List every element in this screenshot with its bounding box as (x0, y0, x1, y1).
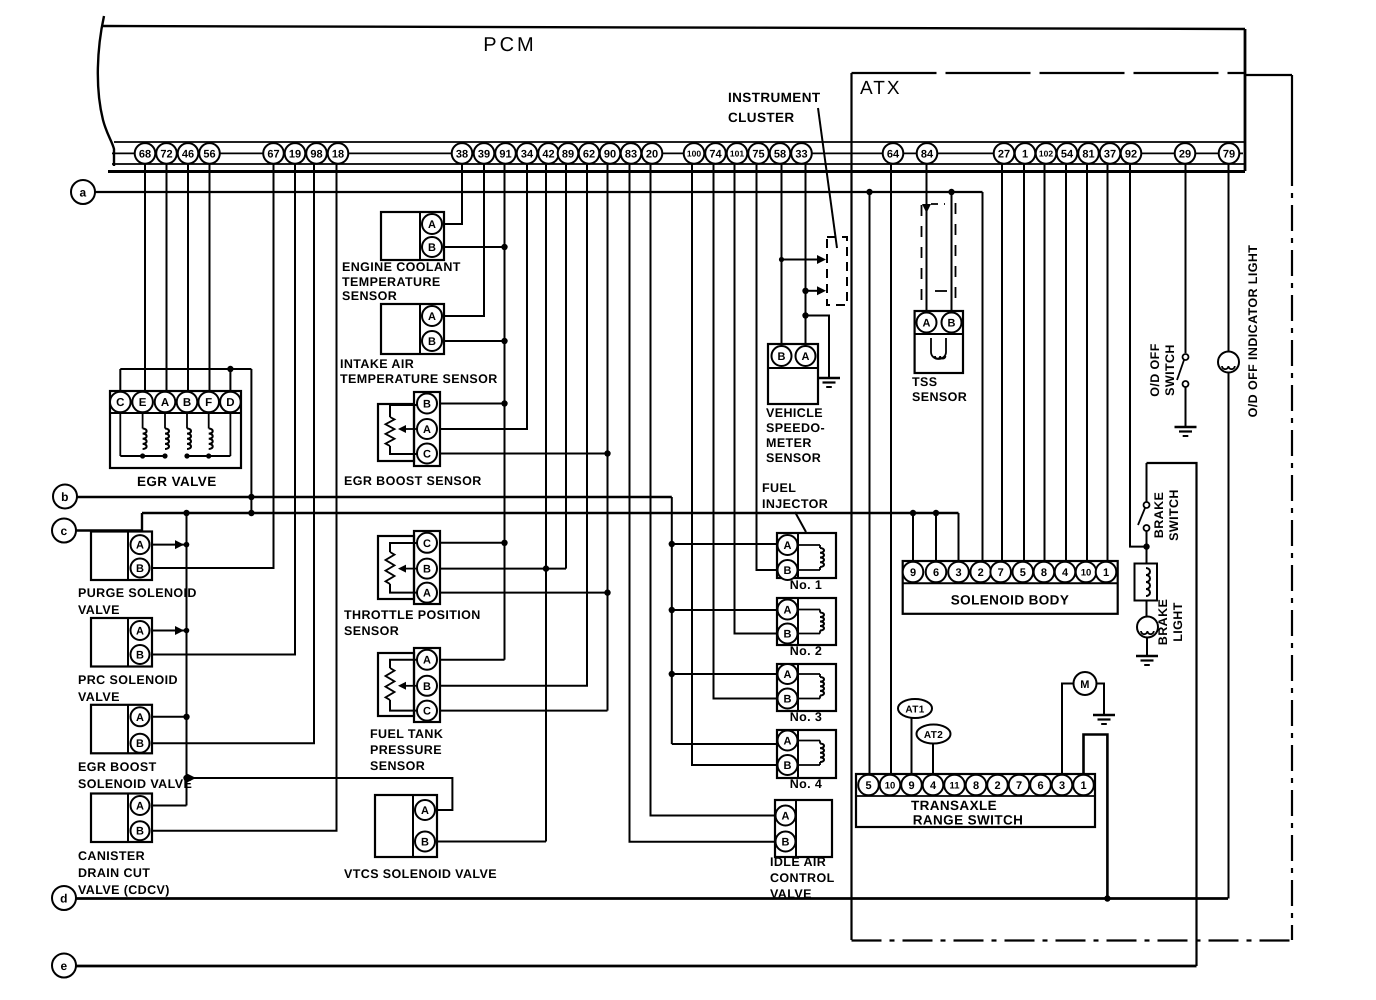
wire EGR C riser (119, 369, 121, 392)
svg-text:RANGE SWITCH: RANGE SWITCH (913, 813, 1024, 828)
svg-text:E: E (139, 397, 147, 409)
wire c-rail to solenoid body 6 (935, 513, 937, 562)
wire pin81 to solenoid body 10 (1086, 163, 1088, 562)
svg-text:B: B (784, 565, 792, 577)
svg-text:4: 4 (1062, 567, 1069, 579)
svg-text:81: 81 (1082, 148, 1094, 160)
svg-text:98: 98 (310, 148, 322, 160)
svg-text:CONTROL: CONTROL (770, 871, 835, 885)
svg-text:No. 4: No. 4 (790, 777, 823, 791)
wire pin37 to solenoid body 1 (1107, 163, 1109, 562)
wire TPS B branch (440, 568, 566, 570)
svg-text:6: 6 (1037, 780, 1043, 792)
svg-text:A: A (802, 351, 810, 363)
svg-text:AT1: AT1 (905, 705, 924, 716)
svg-text:TSS: TSS (912, 375, 938, 389)
wire TPS A branch (440, 592, 608, 594)
PCM connector strip (114, 141, 1245, 143)
svg-text:A: A (782, 810, 790, 822)
range switch pin 10 (880, 775, 901, 796)
svg-text:10: 10 (885, 780, 896, 791)
svg-text:B: B (784, 628, 792, 640)
svg-text:INTAKE AIR: INTAKE AIR (340, 357, 414, 371)
wire pin56 to EGR F (209, 163, 211, 392)
PCM pin 62 (579, 143, 600, 164)
range switch pin 7 (1009, 775, 1030, 796)
PCM pin 37 (1100, 143, 1121, 164)
range switch pin 6 (1030, 775, 1051, 796)
wire PRC solenoid A branch (152, 630, 187, 632)
wire injector1 A branch (672, 543, 777, 545)
EGR valve pin A (155, 392, 176, 413)
range switch pin 9 (901, 775, 922, 796)
wire pin34 to EGR boost sensor A (440, 163, 527, 429)
EGR boost solenoid valve pin B (131, 734, 150, 753)
wire pin83 to idle air control B (630, 163, 776, 842)
svg-text:PURGE SOLENOID: PURGE SOLENOID (78, 586, 197, 600)
svg-text:TEMPERATURE SENSOR: TEMPERATURE SENSOR (340, 372, 498, 386)
EGR boost solenoid valve box (91, 705, 152, 754)
range switch pin 4 (923, 775, 944, 796)
svg-text:D: D (226, 397, 234, 409)
svg-text:91: 91 (499, 148, 511, 160)
svg-text:5: 5 (865, 780, 871, 792)
wire pin54 to solenoid body 4 (1065, 163, 1067, 562)
wire OD switch to ground (1185, 387, 1187, 426)
wire motor to range switch pin 3 (1062, 684, 1074, 776)
wire injector3 A branch (672, 673, 777, 675)
wire pin75 to injector1 B (757, 163, 778, 570)
EGR valve pin E (132, 392, 153, 413)
solenoid body pin 7 (990, 562, 1011, 583)
FTP sensor pin B (417, 676, 437, 696)
svg-text:a: a (79, 186, 86, 200)
svg-text:2: 2 (994, 780, 1000, 792)
PCM pin 18 (328, 143, 349, 164)
svg-text:SPEEDO-: SPEEDO- (766, 421, 825, 435)
wire pin33 cluster arrow branch (806, 290, 819, 292)
svg-text:B: B (423, 681, 431, 693)
wire pin92 to brake switch node (1130, 163, 1147, 547)
injector No. 4 pin B (778, 755, 798, 775)
wire pin101 to injector2 B (735, 163, 778, 634)
svg-text:SENSOR: SENSOR (344, 624, 399, 638)
wire pin89 to TPS B corner (565, 163, 567, 569)
EGR valve coils (143, 429, 147, 450)
PCM pin 92 (1121, 143, 1142, 164)
svg-text:SOLENOID VALVE: SOLENOID VALVE (78, 777, 192, 791)
wire pin72 to EGR A (166, 163, 168, 392)
svg-text:1: 1 (1022, 148, 1028, 160)
AT1 connector oval (898, 699, 932, 718)
PCM pin 89 (558, 143, 579, 164)
canister drain cut valve pin B (131, 821, 150, 840)
VTCS pin B (415, 832, 435, 852)
brake light resistor box (1135, 564, 1158, 601)
TSS sensor cable dashed outline (921, 205, 923, 308)
wire pin84 to TSS A (926, 163, 928, 312)
svg-text:92: 92 (1125, 148, 1137, 160)
svg-text:SENSOR: SENSOR (342, 289, 397, 303)
svg-text:PRESSURE: PRESSURE (370, 743, 442, 757)
wire pin1 to solenoid body 5 (1023, 163, 1025, 562)
svg-text:72: 72 (160, 148, 172, 160)
purge solenoid valve pin A (131, 535, 150, 554)
svg-text:B: B (782, 836, 790, 848)
solenoid body pin 3 (948, 562, 969, 583)
svg-text:ATX: ATX (860, 78, 902, 99)
IACV pin B (776, 832, 796, 852)
wire resistor to bulb (1146, 601, 1148, 617)
wire a-line horizontal (95, 191, 983, 193)
wire pin74 to injector3 B (714, 163, 778, 699)
wire ECT B branch (444, 246, 505, 248)
wire CDCV A corner (152, 805, 187, 807)
wire OD lamp down to d-line (1228, 373, 1230, 899)
wire c-rail corner to solenoid body 3 (958, 513, 960, 562)
PCM pin 38 (452, 143, 473, 164)
svg-text:EGR BOOST: EGR BOOST (78, 760, 157, 774)
VTCS pin A (415, 800, 435, 820)
solenoid body pin 6 (926, 562, 947, 583)
brake light bulb (1137, 617, 1158, 638)
svg-text:3: 3 (955, 567, 961, 579)
TPS pin C (417, 533, 437, 553)
intake air temperature sensor box (381, 304, 444, 354)
wire e-line up to brake switch (1147, 463, 1197, 966)
svg-text:VALVE: VALVE (78, 690, 120, 704)
PRC solenoid valve box (91, 618, 152, 667)
svg-text:B: B (136, 738, 144, 750)
PCM pin 54 (1057, 143, 1078, 164)
node d off-page connector (52, 886, 76, 910)
wire FTP sensor A branch (440, 659, 505, 661)
PCM pin 64 (883, 143, 904, 164)
PCM pin 84 (917, 143, 938, 164)
PCM pin 56 (199, 143, 220, 164)
wire e-line horizontal (76, 965, 1197, 968)
svg-text:18: 18 (332, 148, 344, 160)
wire injector2 A branch (672, 609, 777, 611)
svg-text:10: 10 (1081, 567, 1092, 578)
svg-text:O/D OFF: O/D OFF (1148, 343, 1162, 397)
svg-text:BRAKE: BRAKE (1156, 599, 1170, 645)
svg-text:7: 7 (1016, 780, 1022, 792)
PCM pin 81 (1078, 143, 1099, 164)
wire pin18 to CDCV B (152, 163, 337, 831)
svg-text:FUEL TANK: FUEL TANK (370, 727, 443, 741)
svg-text:19: 19 (289, 148, 301, 160)
wire EGR top rail (120, 368, 251, 370)
ATX box dashed border (852, 72, 1246, 74)
AT2 wire to pin 4 (932, 744, 934, 776)
TSS sensor coil (931, 338, 946, 359)
svg-text:C: C (116, 397, 124, 409)
svg-text:83: 83 (625, 148, 637, 160)
svg-text:C: C (423, 706, 431, 718)
node e off-page connector (52, 954, 76, 978)
junction dots on wire 90 (604, 450, 610, 456)
wire bulb to ground (1146, 638, 1148, 656)
fuel tank pressure sensor body (378, 653, 414, 716)
wire EGR boost sensor B branch (440, 403, 505, 405)
injector No. 2 coil (798, 609, 820, 611)
svg-text:SWITCH: SWITCH (1163, 344, 1177, 396)
wire IAT B branch (444, 340, 505, 342)
wire brake switch to lamp (1146, 531, 1148, 564)
svg-text:46: 46 (182, 148, 194, 160)
wire pin20 to idle air control A (651, 163, 776, 816)
svg-text:2: 2 (978, 567, 984, 579)
svg-text:27: 27 (998, 148, 1010, 160)
svg-text:A: A (428, 219, 436, 231)
injector No. 3 coil (798, 673, 820, 675)
injector No. 3 pin B (778, 689, 798, 709)
wire EGR boost sensor C branch (440, 453, 608, 455)
PCM pin 101 (727, 143, 748, 164)
svg-text:METER: METER (766, 436, 812, 450)
svg-text:IDLE AIR: IDLE AIR (770, 855, 826, 869)
throttle position sensor body (378, 536, 414, 599)
injector No. 4 coil (798, 740, 820, 742)
svg-text:No. 1: No. 1 (790, 578, 823, 592)
wire pin90 sensor return vertical (607, 163, 609, 711)
wire b-line corner down (671, 497, 673, 744)
PCM pin 79 (1219, 143, 1240, 164)
PCM pin 46 (178, 143, 199, 164)
instrument cluster pointer line (818, 108, 837, 248)
PCM pin 27 (994, 143, 1015, 164)
PCM pin 33 (791, 143, 812, 164)
PCM pin 42 (538, 143, 559, 164)
svg-text:B: B (421, 836, 429, 848)
svg-text:PCM: PCM (483, 34, 536, 56)
svg-text:A: A (421, 805, 429, 817)
svg-text:B: B (778, 351, 786, 363)
svg-text:B: B (428, 242, 436, 254)
solenoid body pin 10 (1076, 562, 1097, 583)
junction dot c-rail EGR riser (248, 510, 254, 516)
svg-text:SOLENOID BODY: SOLENOID BODY (951, 593, 1069, 608)
svg-text:3: 3 (1059, 780, 1065, 792)
svg-text:F: F (205, 397, 212, 409)
IAT pin B (422, 331, 442, 351)
brake switch symbol (1144, 502, 1150, 508)
svg-text:8: 8 (973, 780, 979, 792)
wire pin68 to EGR E (144, 163, 146, 392)
svg-text:c: c (60, 524, 67, 538)
wire pin79 to OD indicator lamp (1228, 163, 1230, 352)
wire range switch pin 1 staple to d-line (1084, 735, 1108, 899)
PCM pin 90 (600, 143, 621, 164)
junction dot d-line staple (1104, 895, 1110, 901)
node a off-page connector (71, 180, 95, 204)
fuel injector pointer line (795, 512, 806, 532)
svg-text:84: 84 (921, 148, 934, 160)
svg-text:TRANSAXLE: TRANSAXLE (911, 798, 997, 813)
svg-text:No. 3: No. 3 (790, 710, 823, 724)
FTP sensor pin A (417, 650, 437, 670)
EGR boost sensor pin A (417, 419, 437, 439)
wire c-line jog (76, 513, 142, 531)
svg-text:INJECTOR: INJECTOR (762, 497, 828, 511)
junction dot wire42-TPSB (543, 565, 549, 571)
junction dot b-line EGR riser (248, 494, 254, 500)
svg-text:1: 1 (1103, 567, 1109, 579)
PRC solenoid valve pin A (131, 621, 150, 640)
PCM pin 83 (621, 143, 642, 164)
speedometer ground symbol (818, 377, 840, 379)
EGR valve body and internal coils wiring (110, 391, 241, 468)
svg-text:A: A (161, 397, 169, 409)
svg-text:A: A (136, 800, 144, 812)
svg-text:B: B (784, 760, 792, 772)
TPS pin B (417, 559, 437, 579)
EGR boost sensor resistor (386, 417, 395, 446)
solenoid body pin 5 (1013, 562, 1034, 583)
svg-text:AT2: AT2 (924, 730, 943, 741)
svg-text:M: M (1080, 679, 1090, 691)
wire pin19 to PRC solenoid B (152, 163, 295, 655)
svg-text:79: 79 (1223, 148, 1235, 160)
junction dot brake node (1143, 543, 1149, 549)
svg-text:7: 7 (998, 567, 1004, 579)
wire VTCS A feed line (187, 778, 453, 810)
wire pin64 to range switch 10 (890, 163, 892, 775)
node c off-page connector (52, 519, 76, 543)
PCM pin 91 (495, 143, 516, 164)
svg-text:SENSOR: SENSOR (766, 451, 821, 465)
svg-text:38: 38 (456, 148, 468, 160)
svg-text:68: 68 (139, 148, 151, 160)
svg-text:B: B (136, 563, 144, 575)
wire pin58 cluster arrow branch (782, 259, 819, 261)
svg-text:37: 37 (1104, 148, 1116, 160)
canister drain cut valve box (91, 794, 152, 843)
svg-text:90: 90 (604, 148, 616, 160)
range switch pin 11 (944, 775, 965, 796)
wire pin38 to ECT sensor A (444, 163, 462, 224)
svg-text:102: 102 (1039, 148, 1053, 158)
svg-text:A: A (784, 735, 792, 747)
ECT pin B (422, 237, 442, 257)
svg-text:89: 89 (562, 148, 574, 160)
injector No. 2 pin B (778, 624, 798, 644)
svg-text:B: B (423, 398, 431, 410)
svg-text:A: A (784, 540, 792, 552)
svg-text:EGR VALVE: EGR VALVE (137, 474, 217, 489)
speedometer pin A (796, 346, 816, 366)
svg-text:56: 56 (203, 148, 215, 160)
svg-text:33: 33 (795, 148, 807, 160)
svg-text:A: A (423, 588, 431, 600)
svg-text:4: 4 (930, 780, 937, 792)
svg-text:A: A (136, 540, 144, 552)
wire EGR rail down to c-rail (250, 369, 252, 513)
svg-text:54: 54 (1061, 148, 1074, 160)
svg-text:SENSOR: SENSOR (912, 390, 967, 404)
svg-text:6: 6 (933, 567, 939, 579)
OD off indicator lamp (1218, 352, 1239, 373)
svg-text:A: A (923, 317, 931, 329)
wire b-line horizontal (77, 496, 672, 498)
EGR boost sensor pin B (417, 394, 437, 414)
wire pin62 to FTP sensor B (440, 163, 587, 686)
svg-text:B: B (948, 317, 956, 329)
EGR valve pin C (110, 392, 131, 413)
PCM pin 58 (770, 143, 791, 164)
wire speedometer ground branch (806, 316, 830, 378)
purge solenoid valve pin B (131, 559, 150, 578)
svg-text:d: d (60, 892, 68, 906)
purge solenoid valve box (91, 532, 152, 581)
svg-text:39: 39 (478, 148, 490, 160)
wire c-rail down to valves (186, 513, 188, 806)
node b off-page connector (53, 485, 77, 509)
svg-text:B: B (183, 397, 191, 409)
svg-text:5: 5 (1020, 567, 1026, 579)
range switch pin 3 (1052, 775, 1073, 796)
PCM pin 74 (705, 143, 726, 164)
junction dot a-line branch (866, 189, 872, 195)
solenoid body pin 1 (1096, 562, 1117, 583)
svg-text:VALVE (CDCV): VALVE (CDCV) (78, 883, 170, 897)
svg-text:A: A (784, 669, 792, 681)
wire pin91 sensor supply vertical (504, 163, 506, 660)
PCM pin 75 (748, 143, 769, 164)
svg-text:8: 8 (1041, 567, 1047, 579)
svg-text:B: B (428, 336, 436, 348)
svg-text:FUEL: FUEL (762, 481, 796, 495)
wire a-line to range switch 5 (869, 192, 871, 775)
EGR boost sensor pin C (417, 444, 437, 464)
injector No. 1 coil (798, 544, 820, 546)
svg-text:B: B (423, 564, 431, 576)
solenoid body pin 2 (970, 562, 991, 583)
instrument cluster dashed box (827, 237, 847, 305)
wire pin46 to EGR B (187, 163, 189, 392)
svg-text:62: 62 (583, 148, 595, 160)
svg-text:O/D OFF INDICATOR LIGHT: O/D OFF INDICATOR LIGHT (1246, 245, 1260, 418)
svg-text:64: 64 (887, 148, 900, 160)
svg-text:20: 20 (646, 148, 658, 160)
svg-text:e: e (60, 959, 67, 973)
svg-text:42: 42 (542, 148, 554, 160)
PRC solenoid valve pin B (131, 645, 150, 664)
EGR boost sensor body (378, 404, 414, 461)
svg-text:TEMPERATURE: TEMPERATURE (342, 275, 441, 289)
AT1 wire to pin 9 (911, 718, 913, 775)
wire motor to ground (1097, 684, 1105, 715)
svg-text:SWITCH: SWITCH (1167, 489, 1181, 541)
svg-text:BRAKE: BRAKE (1152, 492, 1166, 538)
TSS pin A (917, 313, 937, 333)
svg-text:DRAIN CUT: DRAIN CUT (78, 866, 150, 880)
wire injector4 A corner (672, 743, 777, 745)
EGR valve pin B (177, 392, 198, 413)
TPS resistor (386, 552, 395, 584)
svg-text:A: A (136, 712, 144, 724)
svg-text:C: C (423, 448, 431, 460)
motor ground symbol (1093, 714, 1115, 716)
range switch pin 5 (858, 775, 879, 796)
wire c-rail horizontal (142, 512, 959, 514)
junction dot a-line TSS B (948, 189, 954, 195)
wire a-line corner to solenoid body 2 (981, 192, 983, 562)
range switch pin 2 (987, 775, 1008, 796)
OD off switch symbol (1183, 354, 1189, 360)
svg-text:CANISTER: CANISTER (78, 849, 145, 863)
